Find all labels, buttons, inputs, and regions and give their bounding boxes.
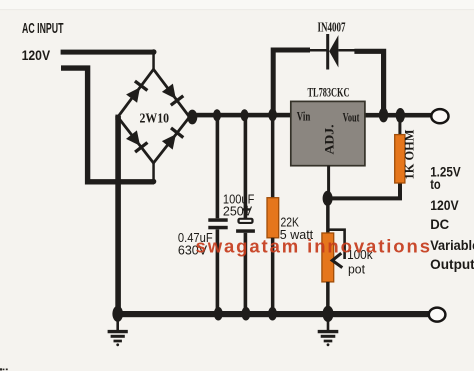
wire DC plus rail [189,113,292,118]
wire AC line 1 [61,50,154,55]
node tap diode loop / R 22K [268,109,277,122]
node Vout junction 2 [396,108,405,123]
node Vout junction 1 [379,108,388,123]
svg-text:AC INPUT: AC INPUT [22,21,64,37]
svg-text:250V: 250V [223,205,253,219]
svg-text:TL783CKC: TL783CKC [308,84,350,99]
svg-text:Output: Output [430,257,474,272]
ground symbol 1 [108,317,128,341]
output terminal plus [431,109,448,123]
capacitor C2 100uF electrolytic [236,115,255,313]
resistor R2 22K [267,115,279,314]
node ADJ junction [323,191,333,206]
wire bottom bus [114,311,429,317]
diode D1 IN4007 [308,34,355,70]
node tap C2 [241,109,249,121]
wire DC minus vertical [115,116,121,315]
svg-text:Vin: Vin [297,109,311,123]
ground symbol 2 [318,317,339,341]
svg-text:1K OHM: 1K OHM [403,129,417,179]
diode top-right (top to right) [162,84,176,99]
wire bridge top lead [152,52,155,71]
wire IN4007 left leg [273,50,310,114]
wire AC line 2 [61,68,154,182]
frame marks bottom left [0,368,8,370]
diode top-left (left to top) [126,87,140,102]
regulator U1 TL783CKC body [291,101,365,165]
label output description [430,165,474,272]
svg-text:ADJ.: ADJ. [323,125,337,155]
wire Vout to output terminal [365,113,432,118]
wire bridge bottom lead [152,162,155,182]
diode bottom-right (bottom to right) [162,134,176,149]
node bus pot [323,306,334,322]
svg-text:120V: 120V [22,47,51,63]
node bus C2 [241,307,250,321]
node tap C1 [213,109,221,121]
node bus C1 [214,307,223,321]
node bus R2 [268,307,277,321]
wire IN4007 right leg [354,51,383,112]
resistor R1 1K body [395,135,405,183]
svg-text:DC: DC [430,217,449,232]
node AC1 top [151,49,157,55]
node AC2 bottom [151,179,157,185]
diode bottom-left (left to bottom) [126,130,140,145]
potentiometer VR1 100k [322,198,345,314]
wire R1 top lead [398,116,401,135]
node bridge right vertex [187,110,197,125]
wire ADJ junction to R1 bottom [328,183,400,198]
svg-text:to: to [430,177,441,192]
svg-text:2W10: 2W10 [140,112,170,127]
wire ADJ pin [327,166,330,194]
svg-text:Vout: Vout [343,110,360,124]
capacitor C1 0.47uF [208,115,227,313]
node bus ground 1 [112,306,123,322]
svg-text:Variable: Variable [430,238,474,253]
svg-text:120V: 120V [430,198,459,213]
output terminal minus [429,308,446,322]
node bridge left vertex [115,115,120,120]
bridge rectifier 2W10 [118,69,190,163]
svg-text:IN4007: IN4007 [318,19,346,34]
svg-text:pot: pot [348,263,366,277]
